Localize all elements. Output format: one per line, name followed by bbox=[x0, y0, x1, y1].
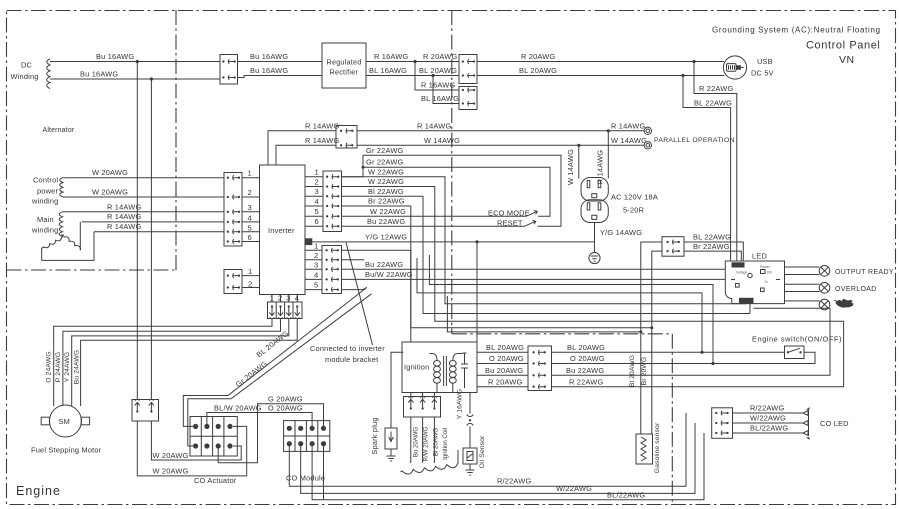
LED module top terminal strip bbox=[732, 262, 745, 267]
svg-text:Bl 20AWG: Bl 20AWG bbox=[433, 428, 440, 456]
wire stepping motor Bu 24AWG bbox=[81, 319, 298, 407]
wire BL 20AWG CN12 to engine switch bbox=[552, 351, 785, 353]
svg-text:BL/22AWG: BL/22AWG bbox=[750, 424, 788, 433]
node junction W 14AWG at outlet drop bbox=[577, 144, 580, 147]
svg-text:Bu 16AWG: Bu 16AWG bbox=[250, 52, 288, 61]
svg-text:BL 22AWG: BL 22AWG bbox=[694, 99, 732, 108]
wire BL 20AWG diagonal to CO actuator bbox=[183, 288, 366, 427]
connector CN12 ignition 4-pin bbox=[528, 346, 552, 391]
wire W 22AWG row 3 to ECO switch bbox=[342, 215, 527, 217]
connector CN8 inverter-left lower 2-pin bbox=[224, 270, 242, 294]
svg-text:R 14AWG: R 14AWG bbox=[107, 222, 141, 231]
wire CN7 pin2 stub bbox=[342, 259, 365, 261]
wire R 14AWG main 2 bbox=[82, 221, 224, 223]
winding engine ignition coil pickup bbox=[400, 450, 458, 474]
svg-text:Connected to inverter: Connected to inverter bbox=[310, 344, 385, 353]
svg-text:Br 22AWG: Br 22AWG bbox=[693, 242, 730, 251]
node junction BL 16AWG bbox=[431, 74, 434, 77]
wire BL 20AWG to USB bbox=[477, 75, 725, 77]
winding main star point tick bbox=[61, 235, 64, 238]
wire Br 20WG gasoline drop bbox=[652, 251, 662, 434]
svg-text:5-20R: 5-20R bbox=[623, 206, 644, 215]
ignition box bbox=[402, 342, 477, 393]
svg-text:R 20AWG: R 20AWG bbox=[521, 52, 555, 61]
svg-text:W/22AWG: W/22AWG bbox=[750, 414, 786, 423]
wire LED feeds from bottom strips bbox=[746, 304, 750, 314]
svg-text:Gr 22AWG: Gr 22AWG bbox=[366, 146, 404, 155]
wire stepping motor P 24AWG bbox=[63, 319, 281, 407]
svg-text:W 14AWG: W 14AWG bbox=[566, 149, 575, 185]
svg-text:W 22AWG: W 22AWG bbox=[368, 177, 404, 186]
wire vertical drop from Bu lower junction to bullet connector bbox=[150, 79, 152, 400]
wire ignition bullet feeds from box bottom bbox=[411, 392, 435, 401]
wire BL/22AWG to CO LED bbox=[733, 432, 804, 434]
svg-text:BL 22AWG: BL 22AWG bbox=[693, 233, 731, 242]
svg-text:100: 100 bbox=[767, 271, 773, 275]
svg-text:W 22AWG: W 22AWG bbox=[368, 167, 404, 176]
svg-text:Bu 16AWG: Bu 16AWG bbox=[96, 52, 134, 61]
svg-text:CO Actuator: CO Actuator bbox=[194, 476, 237, 485]
wire CO module pin4 drop bbox=[323, 444, 325, 500]
winding DC (alternator DC winding coil) bbox=[47, 59, 50, 89]
spark plug bbox=[385, 428, 397, 449]
connector CN10 bullet 2-pin above stepping motor bbox=[132, 400, 159, 422]
svg-text:7s: 7s bbox=[764, 280, 768, 284]
wire vertical drop from Bu upper junction to bullet connector bbox=[136, 62, 138, 400]
wire BL/22AWG bottom bus bbox=[312, 433, 704, 500]
svg-text:Inverter: Inverter bbox=[268, 226, 295, 235]
wire R 14AWG inverter top 2 bbox=[276, 145, 336, 165]
wire stubs CN9 to inverter bbox=[272, 295, 297, 303]
wire W 22AWG row 2 bbox=[342, 187, 844, 387]
svg-text:G 20AWG: G 20AWG bbox=[268, 395, 303, 404]
node junction BL 20AWG at USB bbox=[681, 74, 684, 77]
wire R/22AWG to CO LED bbox=[733, 412, 804, 414]
wire ignition bullets down to coil bbox=[411, 417, 435, 463]
node junction on Bu upper bbox=[136, 60, 139, 63]
wire Gr 22AWG row 1 (RESET loop) bbox=[363, 155, 561, 226]
svg-text:Y 24AWG: Y 24AWG bbox=[64, 352, 71, 383]
svg-text:5: 5 bbox=[315, 207, 319, 216]
wire W/22AWG to CO LED bbox=[733, 422, 804, 424]
wire Bu 22AWG from CN7 pin3 bbox=[342, 268, 726, 270]
node junction O at engine switch bbox=[711, 362, 714, 365]
svg-text:5: 5 bbox=[248, 223, 252, 232]
wire Bu 16AWG lower: DC winding to connector bbox=[50, 78, 220, 80]
svg-text:Winding: Winding bbox=[11, 72, 39, 81]
wire Y 16AWG with disconnect to oil sensor bbox=[469, 393, 471, 449]
svg-text:BL/22AWG: BL/22AWG bbox=[607, 491, 645, 500]
svg-text:R/W 20AWG: R/W 20AWG bbox=[423, 426, 430, 461]
svg-text:R 20AWG: R 20AWG bbox=[423, 52, 457, 61]
oil sensor box bbox=[463, 448, 477, 464]
wire Bu 20AWG ignition to CN12 bbox=[477, 374, 528, 376]
svg-text:ECO MODE: ECO MODE bbox=[488, 209, 530, 218]
svg-text:Oil Sensor: Oil Sensor bbox=[479, 435, 486, 468]
svg-text:4: 4 bbox=[314, 270, 318, 279]
indicator oil wires bbox=[754, 301, 820, 308]
node junction Y/G at ignition drop bbox=[475, 240, 478, 243]
connector CN11 ignition bullets 3-pin bbox=[404, 397, 441, 418]
wire G 20AWG rail to CO module bbox=[218, 404, 323, 463]
svg-text:Control Panel: Control Panel bbox=[806, 40, 880, 52]
svg-text:Voltage: Voltage bbox=[736, 271, 747, 275]
svg-text:6: 6 bbox=[248, 233, 252, 242]
wire Bu 22AWG CN12 to LED module bbox=[552, 308, 831, 375]
leader line Connected to inverter module bracket bbox=[346, 243, 373, 346]
wire CN7 pin1 to ignition bullet bbox=[342, 250, 411, 342]
svg-text:R 16AWG: R 16AWG bbox=[374, 52, 408, 61]
svg-text:R/22AWG: R/22AWG bbox=[497, 477, 531, 486]
wire row to engine switch BL bbox=[429, 255, 713, 364]
svg-text:1: 1 bbox=[315, 168, 319, 177]
wire W 20AWG control winding 1 bbox=[63, 177, 224, 179]
svg-text:1: 1 bbox=[248, 169, 252, 178]
svg-text:Engine switch(ON/OFF): Engine switch(ON/OFF) bbox=[752, 335, 842, 344]
svg-text:4: 4 bbox=[248, 214, 252, 223]
wire W 14AWG to parallel terminal bbox=[357, 144, 644, 146]
wire R 16AWG branch to lower connector bbox=[415, 62, 459, 91]
svg-text:4: 4 bbox=[315, 197, 319, 206]
svg-text:Gr 22AWG: Gr 22AWG bbox=[366, 158, 404, 167]
svg-text:2: 2 bbox=[248, 188, 252, 197]
svg-text:6: 6 bbox=[315, 217, 319, 226]
CO module terminal block bbox=[284, 421, 330, 452]
wire R 14AWG inverter top 1 bbox=[268, 131, 336, 165]
inverter U1 bbox=[260, 165, 306, 295]
svg-text:O 20AWG: O 20AWG bbox=[268, 404, 303, 413]
LED module bottom terminal strip bbox=[739, 298, 754, 304]
svg-text:2: 2 bbox=[314, 251, 318, 260]
indicator oil lamp bbox=[819, 299, 830, 310]
node junction R 16AWG bbox=[413, 60, 416, 63]
CO actuator terminal block bbox=[190, 417, 237, 457]
svg-text:Br 20WG: Br 20WG bbox=[641, 357, 648, 386]
wire BL 20AWG ignition to CN12 bbox=[477, 351, 528, 353]
CO LED lamp symbol bbox=[803, 410, 809, 436]
ground below oil sensor bbox=[466, 464, 475, 475]
svg-text:PARALLEL OPERATION: PARALLEL OPERATION bbox=[654, 137, 735, 144]
svg-text:Bu 16AWG: Bu 16AWG bbox=[250, 66, 288, 75]
svg-text:Main: Main bbox=[37, 215, 54, 224]
svg-text:winding: winding bbox=[31, 226, 58, 235]
wire BL 22AWG down to LED module bbox=[683, 76, 731, 262]
node junction R 20AWG at USB bbox=[692, 60, 695, 63]
svg-text:CO LED: CO LED bbox=[820, 419, 849, 428]
svg-text:1: 1 bbox=[248, 267, 252, 276]
svg-text:SM: SM bbox=[59, 417, 71, 426]
boundary control panel vertical lower bbox=[671, 334, 673, 505]
wire Bu/W 22AWG from CN7 pin4 bbox=[342, 278, 726, 280]
svg-text:R 16AWG: R 16AWG bbox=[421, 81, 455, 90]
svg-text:Y/G 12AWG: Y/G 12AWG bbox=[365, 233, 407, 242]
svg-text:Y/G 14AWG: Y/G 14AWG bbox=[600, 228, 642, 237]
indicator OVERLOAD lamp bbox=[819, 283, 830, 294]
pins CN9 down arrows bbox=[269, 305, 274, 318]
connector CN2 (rectifier out upper 2-pin) bbox=[459, 55, 477, 84]
icon oil can bbox=[834, 299, 854, 308]
svg-text:BL 20AWG: BL 20AWG bbox=[567, 343, 605, 352]
svg-text:RESET: RESET bbox=[497, 219, 523, 228]
svg-text:R 14AWG: R 14AWG bbox=[417, 121, 451, 130]
svg-text:2: 2 bbox=[315, 177, 319, 186]
wire Bu 22AWG row to RESET switch bbox=[342, 225, 525, 227]
wire W 14AWG drop to outlet bbox=[578, 145, 580, 178]
svg-text:5: 5 bbox=[314, 281, 318, 290]
wire CN13 to LED module strip bbox=[684, 242, 743, 261]
wire W 20AWG control winding 2 bbox=[63, 196, 224, 198]
wire R 14AWG main 3 bbox=[94, 231, 224, 233]
svg-text:R 14AWG: R 14AWG bbox=[107, 212, 141, 221]
node junction on Bu lower bbox=[150, 77, 153, 80]
wire Y/G 14AWG outlet to ground bbox=[594, 223, 596, 253]
wire R 14AWG main 1 bbox=[63, 211, 225, 213]
svg-text:Bu 16AWG: Bu 16AWG bbox=[80, 70, 118, 79]
svg-text:BL 16AWG: BL 16AWG bbox=[369, 66, 407, 75]
svg-text:R 14AWG: R 14AWG bbox=[107, 203, 141, 212]
AC outlet duplex 5-20R lower receptacle bbox=[581, 200, 608, 223]
spark plug wire bbox=[391, 352, 403, 428]
wire stepping motor Y 24AWG bbox=[72, 319, 289, 407]
svg-text:module bracket: module bracket bbox=[325, 355, 378, 364]
boundary alternator horizontal bbox=[7, 269, 177, 271]
wire R 20AWG to USB bbox=[477, 61, 724, 63]
wire row to engine switch O bbox=[417, 258, 702, 352]
svg-text:BL 20AWG: BL 20AWG bbox=[486, 343, 524, 352]
svg-text:O 20AWG: O 20AWG bbox=[570, 354, 605, 363]
svg-text:Gasoline sensor: Gasoline sensor bbox=[654, 422, 661, 473]
wire BL 16AWG branch to lower connector bbox=[433, 76, 459, 104]
svg-text:Y 16AWG: Y 16AWG bbox=[457, 389, 464, 420]
svg-text:R 14AWG: R 14AWG bbox=[611, 121, 645, 130]
svg-text:R 22AWG: R 22AWG bbox=[699, 84, 733, 93]
svg-text:R 14AWG: R 14AWG bbox=[596, 150, 605, 184]
transformer core bbox=[444, 356, 447, 386]
svg-text:Control: Control bbox=[33, 176, 58, 185]
svg-text:R 14AWG: R 14AWG bbox=[305, 121, 339, 130]
winding main right diagonal leg bbox=[64, 237, 81, 250]
svg-text:BL 16AWG: BL 16AWG bbox=[421, 94, 459, 103]
wire stubs inverter to CN7 bbox=[305, 250, 322, 289]
svg-text:Fuel Stepping Motor: Fuel Stepping Motor bbox=[31, 446, 102, 455]
node junction BL at engine switch bbox=[700, 351, 703, 354]
wire main winding bottom loop bbox=[42, 232, 94, 261]
svg-text:Bu 22AWG: Bu 22AWG bbox=[365, 260, 403, 269]
wire Gr 20AWG diagonal to CO actuator bbox=[188, 294, 372, 446]
svg-text:Ignition: Ignition bbox=[404, 363, 429, 372]
svg-text:Bl 20AWG: Bl 20AWG bbox=[629, 355, 636, 387]
svg-text:R 14AWG: R 14AWG bbox=[305, 136, 339, 145]
node inverter ground lug (black square) bbox=[306, 238, 313, 245]
connector CN9 inverter-bottom 4-pin bbox=[268, 302, 303, 319]
wire R 20AWG ignition to CN12 bbox=[477, 386, 528, 388]
wire R 14AWG to parallel terminal bbox=[357, 130, 644, 132]
svg-text:P 24AWG: P 24AWG bbox=[55, 352, 62, 383]
svg-text:O 20AWG: O 20AWG bbox=[489, 354, 524, 363]
svg-text:Spark plug: Spark plug bbox=[370, 417, 379, 454]
wire stubs CN4 to inverter bbox=[242, 178, 260, 242]
wire main winding right branch riser bbox=[79, 222, 81, 250]
svg-text:AC 120V 18A: AC 120V 18A bbox=[611, 193, 658, 202]
svg-text:Engine: Engine bbox=[16, 484, 61, 498]
svg-text:winding: winding bbox=[31, 197, 58, 206]
svg-text:Br 22AWG: Br 22AWG bbox=[368, 197, 405, 206]
wire stubs inverter to CN6 bbox=[305, 177, 323, 227]
svg-text:OUTPUT READY: OUTPUT READY bbox=[835, 269, 894, 276]
svg-text:Power: Power bbox=[760, 265, 770, 269]
svg-text:Bu 20AWG: Bu 20AWG bbox=[485, 366, 523, 375]
wire Bu 16AWG upper: DC winding to connector bbox=[50, 61, 220, 63]
svg-text:BL/W 20AWG: BL/W 20AWG bbox=[214, 404, 262, 413]
wire R 16AWG rectifier output bbox=[366, 61, 459, 63]
ground protective earth symbol bbox=[589, 252, 600, 263]
indicator OUTPUT READY wires bbox=[785, 267, 820, 275]
svg-text:W 14AWG: W 14AWG bbox=[424, 136, 460, 145]
connector CN13 LED 2-pin bbox=[662, 237, 684, 257]
boundary control panel vertical upper bbox=[451, 10, 453, 334]
wire Bl 20AWG gasoline row bbox=[447, 296, 640, 434]
wire W 20AWG bullet to CO actuator row1 col4 bbox=[137, 421, 246, 476]
svg-text:R/22AWG: R/22AWG bbox=[750, 404, 784, 413]
svg-text:Bu 24AWG: Bu 24AWG bbox=[73, 350, 80, 385]
wire Y/G drop to ignition box bbox=[476, 242, 478, 342]
wire Br 22AWG row bbox=[342, 206, 652, 328]
wire W 20AWG bullet to CO actuator row2 col4 bbox=[151, 421, 241, 460]
svg-text:1: 1 bbox=[314, 241, 318, 250]
svg-text:R 20AWG: R 20AWG bbox=[488, 377, 522, 386]
svg-text:OVERLOAD: OVERLOAD bbox=[835, 286, 877, 293]
svg-text:DC 5V: DC 5V bbox=[751, 69, 774, 78]
boundary control panel horizontal bbox=[452, 333, 673, 335]
svg-text:Bu/W 22AWG: Bu/W 22AWG bbox=[365, 270, 413, 279]
connector CN14 CO LED 3-pin bbox=[712, 408, 733, 439]
wire Bu 16AWG to rectifier upper bbox=[238, 61, 323, 63]
svg-text:3: 3 bbox=[315, 187, 319, 196]
wire BL 16AWG rectifier output bbox=[366, 75, 459, 77]
svg-text:W 20AWG: W 20AWG bbox=[92, 168, 128, 177]
transformer primary coil bbox=[434, 361, 441, 367]
svg-text:W 20AWG: W 20AWG bbox=[153, 467, 189, 476]
LED module box bbox=[725, 261, 784, 304]
winding main vertical leg bbox=[59, 212, 62, 237]
wire W 22AWG row 1 bbox=[342, 177, 747, 304]
svg-text:USB: USB bbox=[757, 57, 773, 66]
motor SM fuel stepping motor bbox=[49, 405, 81, 437]
wire R 14AWG drop to outlet bbox=[607, 131, 609, 179]
svg-text:Grounding System (AC):Neutral: Grounding System (AC):Neutral Floating bbox=[712, 26, 881, 35]
transformer secondary coil bbox=[449, 361, 456, 367]
svg-text:W 20AWG: W 20AWG bbox=[153, 451, 189, 460]
svg-text:Bu 22AWG: Bu 22AWG bbox=[566, 366, 604, 375]
connector CN4 inverter-left 6-pin bbox=[224, 173, 242, 247]
svg-text:Regulated: Regulated bbox=[327, 58, 362, 67]
node junction Br gasoline bbox=[650, 326, 653, 329]
connector CN5 parallel 2-pin bbox=[336, 126, 357, 149]
terminal parallel operation lower bbox=[644, 142, 651, 149]
svg-text:Bu 20AWG: Bu 20AWG bbox=[413, 427, 420, 458]
boundary alternator vertical bbox=[175, 10, 177, 270]
wire Bu 16AWG to rectifier lower bbox=[238, 76, 323, 78]
winding control power bbox=[60, 178, 63, 197]
wire O 20AWG CN12 to engine switch return bbox=[552, 352, 816, 363]
wire Bl 22AWG row bbox=[342, 196, 751, 313]
svg-text:W 20AWG: W 20AWG bbox=[92, 188, 128, 197]
svg-text:Ignition Coil: Ignition Coil bbox=[442, 428, 449, 460]
indicator OVERLOAD wires bbox=[785, 284, 820, 291]
USB port symbol bbox=[723, 56, 746, 79]
wire R 22AWG down to LED module bbox=[694, 62, 737, 262]
svg-text:R 22AWG: R 22AWG bbox=[569, 377, 603, 386]
svg-text:Alternator: Alternator bbox=[43, 127, 75, 134]
wire Y/G 12AWG ground row bbox=[312, 241, 594, 243]
svg-text:O 24AWG: O 24AWG bbox=[46, 351, 53, 382]
wire stepping motor O 24AWG bbox=[54, 319, 272, 407]
svg-text:Bu 22AWG: Bu 22AWG bbox=[367, 217, 405, 226]
svg-text:VN: VN bbox=[839, 54, 855, 66]
terminal parallel operation upper bbox=[644, 127, 651, 134]
node junction R 14AWG at outlet drop bbox=[607, 129, 610, 132]
svg-text:power: power bbox=[37, 187, 58, 196]
svg-text:CO Module: CO Module bbox=[286, 474, 325, 483]
wire O 20AWG ignition to CN12 bbox=[477, 363, 528, 365]
wire Gr 22AWG row 2 (ECO loop) bbox=[363, 167, 550, 216]
svg-text:LED: LED bbox=[752, 252, 767, 261]
svg-text:3: 3 bbox=[248, 203, 252, 212]
svg-text:W 22AWG: W 22AWG bbox=[370, 207, 406, 216]
ground below spark plug bbox=[387, 449, 396, 461]
svg-text:BL 20AWG: BL 20AWG bbox=[519, 66, 557, 75]
gasoline sensor box bbox=[636, 434, 653, 464]
wire BL/W 20AWG + O 20AWG rail to CO module bbox=[207, 413, 312, 429]
wire stubs CN8 to inverter bbox=[242, 276, 260, 288]
capacitor inside ignition box bbox=[461, 353, 468, 388]
indicator OUTPUT READY lamp bbox=[819, 266, 830, 277]
svg-text:W 14AWG: W 14AWG bbox=[611, 136, 647, 145]
AC outlet duplex 5-20R upper receptacle bbox=[581, 178, 608, 202]
wire Gr 22AWG link from pin1 bbox=[342, 155, 364, 176]
svg-text:W/22AWG: W/22AWG bbox=[556, 484, 592, 493]
wire R/22AWG bottom bus bbox=[289, 413, 686, 486]
svg-text:Bl 22AWG: Bl 22AWG bbox=[368, 187, 404, 196]
connector CN3 (rectifier out lower 2-pin spare) bbox=[459, 87, 477, 110]
wire W/22AWG bottom bus bbox=[301, 423, 695, 493]
svg-text:Rectifier: Rectifier bbox=[330, 68, 359, 77]
connector CN1 (DC winding 2-pin) bbox=[220, 55, 238, 85]
winding main left diagonal leg bbox=[42, 237, 62, 248]
svg-text:3: 3 bbox=[314, 260, 318, 269]
wire 2-pin LED connector left BL 22AWG bbox=[641, 242, 662, 332]
connector CN6 inverter-right 6-pin bbox=[323, 171, 342, 232]
svg-text:DC: DC bbox=[21, 61, 33, 70]
rectifier box Regulated Rectifier bbox=[322, 43, 366, 88]
connector CN7 inverter-right 5-pin bbox=[322, 246, 342, 294]
svg-text:BL 20AWG: BL 20AWG bbox=[419, 66, 457, 75]
